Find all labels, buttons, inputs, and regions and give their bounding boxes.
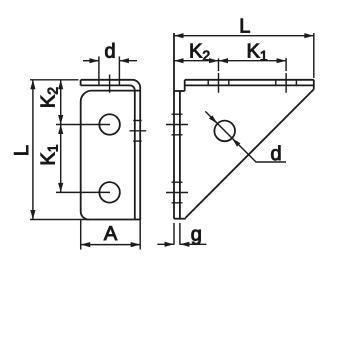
- gusset hole lower edge tick: [133, 140, 142, 142]
- bottom edge of vertical plate: [174, 218, 186, 220]
- svg-text:d: d: [270, 143, 281, 165]
- arrow K1 right: [277, 58, 287, 63]
- arrow d right: [119, 58, 128, 63]
- top hole 1 edge ticks: [208, 79, 229, 85]
- arrow K2 bottom: [58, 115, 63, 125]
- flange strip left end cap: [80, 80, 82, 86]
- svg-text:K1: K1: [38, 144, 61, 165]
- extension line g left: [173, 223, 175, 245]
- dimension line K2/K1 (right view): [174, 60, 286, 62]
- arrow d left: [89, 58, 99, 63]
- top hole 1 center tick / K2 extension: [218, 58, 220, 92]
- extension line bottom (L): [30, 219, 89, 221]
- svg-text:K2: K2: [189, 41, 210, 64]
- arrow g right: [180, 242, 190, 247]
- vertical plate left edge (also L/K2 extension line): [173, 33, 175, 219]
- svg-text:d: d: [104, 41, 115, 63]
- arrow A left: [81, 242, 91, 247]
- dimension line K2/K1 (left view): [60, 80, 62, 193]
- extension line L right (right view): [313, 33, 315, 78]
- flange strip inner line with bend to gusset inner edge: [81, 85, 135, 219]
- gusset hole leader line (45deg): [205, 111, 286, 162]
- extension line A left (below plate): [80, 220, 82, 250]
- arrow K1 top: [58, 125, 63, 135]
- extension line A right (below gusset): [139, 220, 141, 250]
- gusset hole: [214, 121, 235, 142]
- flange hole edge tick / d extension line left: [98, 56, 100, 85]
- hole 2 (lower) in plate: [99, 182, 120, 203]
- svg-text:g: g: [191, 223, 202, 245]
- vertical plate top edge: [174, 90, 185, 92]
- svg-text:K2: K2: [38, 87, 61, 108]
- arrow K2 top: [58, 80, 63, 90]
- dimension line g right tail: [180, 243, 207, 245]
- side hole 2 center tick: [166, 192, 188, 194]
- arrow L right: [304, 33, 314, 38]
- side hole 1 center tick: [166, 124, 188, 126]
- arrow K2 left: [174, 58, 184, 63]
- extension line g right: [179, 223, 181, 245]
- top plate left end cap: [184, 80, 186, 91]
- dimension line L (right view): [174, 35, 314, 37]
- svg-text:A: A: [104, 223, 118, 245]
- flange hole edge tick / d extension line right: [118, 56, 120, 85]
- arrow K1 bottom: [58, 183, 63, 193]
- hole 2 centerline: [56, 191, 110, 193]
- dimension line d left tail: [83, 60, 99, 62]
- extension line top (L / K2): [30, 79, 79, 81]
- arrow K1 left: [219, 58, 229, 63]
- gusset hypotenuse: [185, 89, 313, 218]
- leader arrow lower-right: [232, 138, 240, 146]
- top plate top line: [185, 79, 314, 81]
- arrow L left: [174, 33, 184, 38]
- side hole 1 edge ticks: [172, 114, 183, 135]
- top plate right end cap: [313, 80, 315, 90]
- arrow L top: [30, 80, 35, 90]
- top hole 2 edge ticks: [276, 79, 297, 85]
- dimension line A: [81, 244, 141, 246]
- flange strip (top plate edge-on) outer line with bend to gusset outer edge: [81, 80, 141, 220]
- gusset hole centerline tick (edge view): [130, 130, 147, 132]
- dimension line g left tail: [157, 243, 174, 245]
- plate outline (front face): [81, 91, 141, 220]
- hole 1 (upper) in plate: [99, 114, 120, 135]
- arrow A right: [131, 242, 141, 247]
- svg-text:L: L: [11, 145, 33, 156]
- svg-text:K1: K1: [247, 41, 268, 64]
- arrow L bottom: [30, 210, 35, 220]
- leader arrow upper-left: [209, 115, 217, 123]
- hole 1 centerline: [56, 124, 110, 126]
- side hole 2 edge ticks: [172, 182, 183, 203]
- flange hole centerline tick: [109, 75, 111, 93]
- top plate bottom line: [185, 84, 314, 86]
- vertical plate right edge: [179, 91, 181, 219]
- svg-text:L: L: [239, 15, 250, 37]
- dimension line L (left view): [32, 80, 34, 220]
- top hole 2 center tick / K1 extension: [285, 58, 287, 93]
- dimension line d right tail: [119, 60, 137, 62]
- gusset hole upper edge tick: [133, 120, 142, 122]
- arrow g left: [165, 242, 175, 247]
- arrow K2 right: [209, 58, 219, 63]
